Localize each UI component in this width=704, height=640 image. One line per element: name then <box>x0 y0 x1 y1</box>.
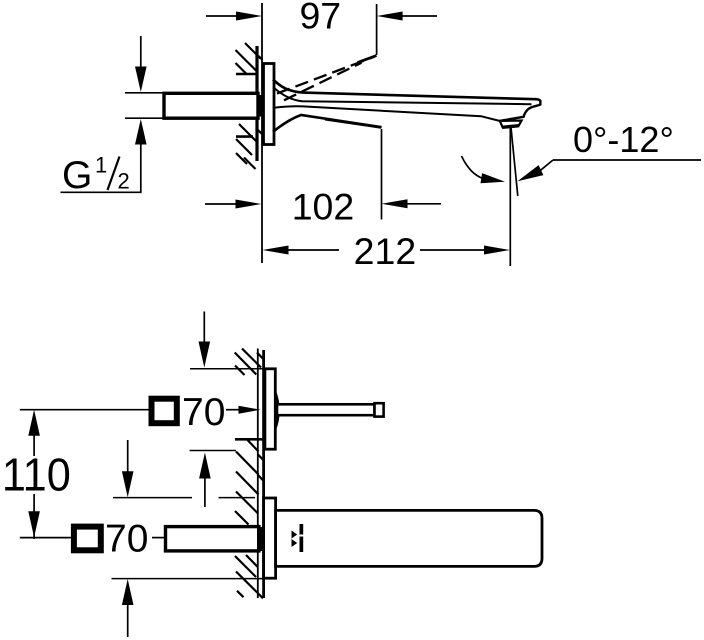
handle lever tip <box>375 403 384 416</box>
svg-text:2: 2 <box>118 169 130 194</box>
spout top edge <box>273 80 540 102</box>
wall base flange bar (top view) <box>255 46 258 161</box>
angle leader diagonal <box>541 160 554 170</box>
wall hatching upper band (top view) <box>236 43 263 74</box>
square symbol 70 (handle) <box>152 399 177 424</box>
handle lever shaft <box>277 404 375 415</box>
svg-text:70: 70 <box>105 518 148 561</box>
up arrow to handle plate bottom <box>199 453 211 479</box>
concealed body top edge <box>236 73 257 76</box>
pipe-to-wall connector fill (bottom view) <box>257 527 265 551</box>
hatching above pipe (bottom view) <box>235 511 249 525</box>
aerator <box>500 121 522 128</box>
wall line (bottom view) <box>257 349 259 599</box>
pipe-to-wall connector fill <box>258 95 265 117</box>
spout end cap <box>500 101 541 121</box>
tilted stream line (12 deg) <box>511 128 518 197</box>
lower plate bottom extension line <box>112 578 264 580</box>
G1/2 dimension up arrow and leader <box>135 119 147 145</box>
svg-text:G: G <box>62 154 92 197</box>
spout underside <box>275 106 500 121</box>
raised lever dashed line B <box>284 63 362 101</box>
svg-text:102: 102 <box>292 185 355 227</box>
flow direction mark <box>292 531 298 539</box>
angle right arrowhead <box>518 165 544 181</box>
spout inner top line <box>274 88 532 105</box>
70 leader right with arrow (handle) <box>226 409 242 411</box>
escutcheon plate (top view, side) <box>264 64 275 145</box>
supply pipe (bottom view) <box>166 527 259 551</box>
supply pipe G1/2 (top view) <box>164 93 258 118</box>
raised lever dashed line A <box>277 57 375 94</box>
down arrow to lower plate top <box>127 440 129 474</box>
angle leader underline <box>553 159 701 161</box>
svg-text:97: 97 <box>299 0 341 37</box>
dimension 97 <box>206 15 240 17</box>
lever top edge / lower flare <box>273 115 382 132</box>
square symbol 70 (spout) <box>74 527 101 551</box>
swivel arc <box>462 156 484 179</box>
water stream vertical line <box>509 128 511 267</box>
dimension 102 <box>205 203 240 205</box>
handle plate top extension line <box>190 368 265 370</box>
svg-text:212: 212 <box>354 230 417 272</box>
lever tip extension line <box>381 129 383 220</box>
concealed body bottom edge <box>236 135 253 138</box>
handle plate bottom extension line <box>190 450 236 452</box>
lever bottom edge <box>325 119 381 127</box>
70 leader left (handle) <box>20 409 149 411</box>
70 leader right (spout) <box>152 537 166 539</box>
dimension 212 <box>263 246 289 255</box>
svg-text:70: 70 <box>182 391 225 434</box>
handle cone <box>275 391 279 430</box>
handle escutcheon plate (bottom view) <box>265 369 275 449</box>
svg-text:0°-12°: 0°-12° <box>573 119 674 160</box>
svg-text:110: 110 <box>2 450 71 500</box>
hatching above handle plate <box>235 349 264 376</box>
hatching below pipe and below plate <box>235 555 263 598</box>
wall plate line (bottom view) <box>262 350 265 598</box>
97 right extension line <box>376 4 378 55</box>
hatching between plates <box>235 439 264 513</box>
spout body (bottom view) <box>276 510 542 566</box>
arc arrowhead <box>481 173 506 183</box>
pipe edge extension lines <box>125 92 164 94</box>
70 leader left (spout) <box>20 537 71 539</box>
svg-text:1: 1 <box>95 153 107 178</box>
dimension 110 <box>28 410 40 436</box>
up arrow to lower plate bottom <box>122 579 134 605</box>
spout escutcheon plate (bottom view) <box>264 498 276 578</box>
raised lever tip cap <box>358 56 377 63</box>
wall face / extension line (top view) <box>261 3 263 263</box>
down arrow to handle plate top <box>203 312 205 346</box>
G1/2 dimension down arrow <box>140 36 142 68</box>
lower plate top extension line <box>113 497 192 499</box>
wall hatching lower band (top view) <box>236 124 262 169</box>
